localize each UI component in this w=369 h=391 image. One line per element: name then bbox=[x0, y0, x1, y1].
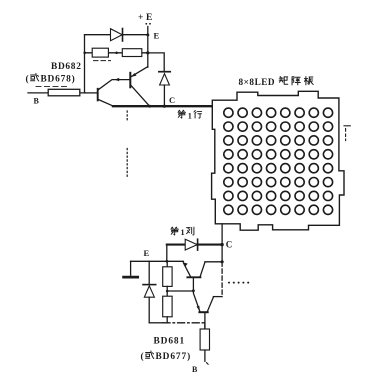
junction between resistors bbox=[166, 290, 169, 293]
label (or BD678) bbox=[26, 73, 76, 84]
label col-1 : di 1 lie bbox=[181, 228, 185, 237]
wire C bus bbox=[221, 245, 223, 297]
svg-text:BD677): BD677) bbox=[156, 351, 192, 362]
svg-text:E: E bbox=[144, 248, 150, 258]
resistor R3 (base series) bbox=[200, 323, 209, 361]
label C (row) bbox=[169, 95, 175, 105]
wire drop from top wire to E rail bbox=[166, 245, 168, 262]
label 8x8 LED matrix board bbox=[239, 77, 276, 87]
svg-text:(: ( bbox=[26, 73, 30, 84]
wire bottom base rail bbox=[149, 322, 205, 324]
transistor Q1 (BD682 driver) bbox=[85, 78, 129, 106]
wire row-1 rail (C) bbox=[113, 105, 212, 107]
resistor R2 (internal, lower) bbox=[163, 296, 172, 323]
svg-text:(: ( bbox=[141, 351, 145, 362]
wire dotted stub under +E bbox=[145, 23, 151, 25]
ground bbox=[124, 261, 138, 277]
glyph: huo of (or BD677) bbox=[146, 351, 154, 359]
label BD681 bbox=[154, 337, 186, 347]
LED circles 8x8 bbox=[224, 108, 333, 214]
wire resistor row leads bbox=[85, 52, 148, 54]
diode D2 bbox=[159, 72, 170, 85]
junction C bus top bbox=[221, 260, 224, 263]
svg-text:B: B bbox=[192, 365, 198, 374]
dotted continuation below row driver bbox=[126, 111, 128, 177]
junction top wire / E vertical bbox=[146, 33, 149, 36]
transistor Q2 (BD681 output) bbox=[193, 291, 222, 329]
junction / node C of row rail bbox=[163, 105, 166, 108]
junction E vertical / resistor row bbox=[146, 51, 149, 54]
terminal tick bbox=[207, 363, 209, 365]
wire top of column driver (E to C) bbox=[167, 244, 222, 246]
svg-text:E: E bbox=[146, 13, 152, 23]
label (or BD677) bbox=[141, 351, 192, 362]
resistor Rin (base input) bbox=[28, 86, 85, 95]
label row-1 : di 1 xing bbox=[188, 111, 192, 120]
svg-text:BD681: BD681 bbox=[154, 337, 186, 347]
label B (column driver input) bbox=[192, 365, 198, 374]
transistor Q1 (BD681 driver) bbox=[183, 262, 222, 291]
wire E rail bbox=[131, 260, 184, 262]
transistor Q2 (BD682 output) bbox=[130, 67, 149, 107]
LED matrix board outline bbox=[212, 91, 344, 230]
svg-text:BD682: BD682 bbox=[51, 62, 82, 72]
svg-text:+: + bbox=[138, 13, 143, 23]
junction left vertical / resistor row bbox=[83, 52, 86, 55]
wire E vertical bbox=[147, 27, 149, 68]
wire resistor junction to base bbox=[167, 290, 193, 292]
label BD682 bbox=[51, 62, 82, 72]
node E label bbox=[154, 31, 160, 41]
svg-text:C: C bbox=[169, 95, 175, 105]
wire column-1 from board bbox=[221, 224, 223, 245]
resistor R1 (internal, upper) bbox=[163, 261, 172, 296]
svg-text:BD678): BD678) bbox=[41, 73, 76, 84]
wire branch to diode D2 bbox=[148, 53, 164, 72]
label E (column driver) bbox=[144, 248, 150, 258]
diode D1 bbox=[111, 29, 123, 42]
junction dot between Ra and Rb bbox=[115, 52, 118, 55]
svg-text:C: C bbox=[226, 240, 233, 250]
wire D2 to row rail bbox=[163, 85, 165, 106]
node C (column) junction bbox=[220, 243, 223, 246]
svg-text:8×8LED: 8×8LED bbox=[239, 77, 276, 87]
resistor Ra (internal) bbox=[92, 48, 110, 60]
svg-text:B: B bbox=[34, 97, 40, 106]
svg-text:E: E bbox=[154, 31, 160, 41]
wire left vertical bbox=[84, 35, 86, 93]
svg-text:1: 1 bbox=[188, 111, 192, 120]
resistor Rb (internal) bbox=[122, 49, 142, 57]
continuation dash-dot right of board bbox=[344, 126, 350, 141]
diode D4 branch bbox=[143, 261, 156, 323]
supply +E label bbox=[138, 13, 152, 23]
ellipsis continuation right bbox=[228, 282, 249, 284]
glyph: huo of (or BD678) bbox=[31, 73, 39, 81]
label B (input) bbox=[34, 97, 40, 106]
junction Q2 collector / rail bbox=[148, 105, 151, 108]
label C (column) bbox=[226, 240, 233, 250]
diode D3 bbox=[185, 239, 197, 250]
svg-text:1: 1 bbox=[181, 228, 185, 237]
wire top horizontal bbox=[85, 34, 148, 36]
junction base wire bbox=[192, 289, 195, 292]
junction E rail / drop bbox=[166, 260, 169, 263]
